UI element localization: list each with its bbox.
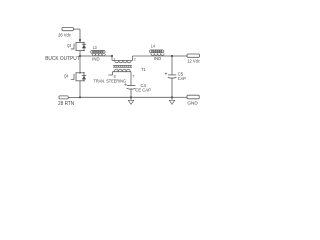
svg-text:IND: IND (154, 56, 161, 61)
label C5 (178, 71, 184, 76)
svg-text:Q3: Q3 (67, 43, 72, 48)
pin 1 (113, 58, 115, 62)
capacitor C5 (165, 73, 177, 98)
wire T1 pin 7 to C4 (130, 72, 132, 86)
transistor Q4 (71, 72, 86, 82)
svg-text:Q4: Q4 (64, 74, 69, 79)
label 12 Vdc (187, 59, 200, 64)
label C4 (141, 83, 147, 88)
node C4 bottom (130, 96, 132, 98)
wire node to 12Vdc terminal (172, 55, 188, 57)
label IND L3 (92, 56, 99, 61)
pin 2 (134, 58, 136, 62)
label TRAN. STEERING (94, 79, 127, 84)
label BUCK OUTPUT (45, 56, 79, 62)
svg-text:7: 7 (132, 75, 134, 79)
svg-text:BUCK OUTPUT: BUCK OUTPUT (45, 56, 79, 62)
wire L4 to C5 node (165, 55, 172, 57)
label CE CAP (135, 88, 151, 93)
wire node to Q4 drain (79, 56, 81, 73)
transformer T1 bottom winding (113, 69, 132, 72)
transistor Q3 (71, 42, 86, 51)
node T1 pin1 tap (111, 55, 113, 57)
label CAP C5 (178, 76, 186, 81)
wire Q3 source to node (79, 51, 81, 57)
bottom rail wire C4 to C5 (131, 96, 172, 98)
svg-text:26 Vdc: 26 Vdc (58, 32, 71, 37)
wire node to L3 (80, 55, 91, 57)
node Q3 drain (79, 39, 81, 41)
svg-text:L3: L3 (93, 45, 97, 50)
svg-text:TRAN. STEERING: TRAN. STEERING (94, 79, 127, 84)
label T1 (141, 67, 146, 72)
svg-text:T1: T1 (141, 67, 146, 72)
svg-text:L4: L4 (151, 44, 155, 49)
wire Q4 source to bottom rail (79, 81, 81, 97)
ground arrow at C4 (128, 97, 133, 104)
wire C5 top lead (171, 56, 173, 75)
terminal 12 Vdc (187, 54, 199, 57)
transformer T1 core (113, 65, 132, 67)
capacitor C4 (124, 83, 135, 97)
terminal 28 RTN (59, 96, 80, 99)
label GND (187, 101, 198, 107)
svg-text:IND: IND (92, 56, 99, 61)
label Q3 (67, 43, 72, 48)
label L3 (93, 45, 97, 50)
transformer T1 top winding (112, 60, 133, 62)
inductor L3 (91, 50, 106, 56)
label 26 Vdc (58, 32, 71, 37)
svg-text:CAP: CAP (178, 76, 186, 81)
svg-text:CE CAP: CE CAP (135, 88, 151, 93)
label IND L4 (154, 56, 161, 61)
label 28 RTN (58, 101, 75, 107)
pin 8 (114, 75, 116, 79)
node BUCK OUTPUT (79, 55, 81, 57)
pin 7 (132, 75, 134, 79)
wire rail to GND terminal (172, 96, 187, 98)
svg-text:2: 2 (134, 58, 136, 62)
node C5 bottom (171, 96, 173, 98)
bottom rail wire (80, 96, 131, 98)
ground arrow at C5 (169, 97, 174, 104)
svg-text:28 RTN: 28 RTN (58, 101, 75, 107)
wire rail C to L4 (133, 55, 150, 57)
node C5 top (171, 55, 173, 57)
label L4 (151, 44, 155, 49)
wire L3 to T1 node (106, 55, 112, 57)
terminal GND (187, 95, 199, 99)
wire T1 pin 8 stub (109, 72, 113, 75)
wire T1 pin 2 riser (132, 56, 134, 60)
terminal 26 Vdc (62, 28, 80, 31)
wire 26Vdc to Q3 drain (79, 29, 81, 42)
wire to T1 pin 1 (111, 56, 113, 60)
label Q4 (64, 74, 69, 79)
node Q4 source (79, 96, 81, 98)
inductor L4 (150, 50, 166, 56)
svg-text:GND: GND (187, 101, 198, 107)
svg-text:12 Vdc: 12 Vdc (187, 59, 200, 64)
